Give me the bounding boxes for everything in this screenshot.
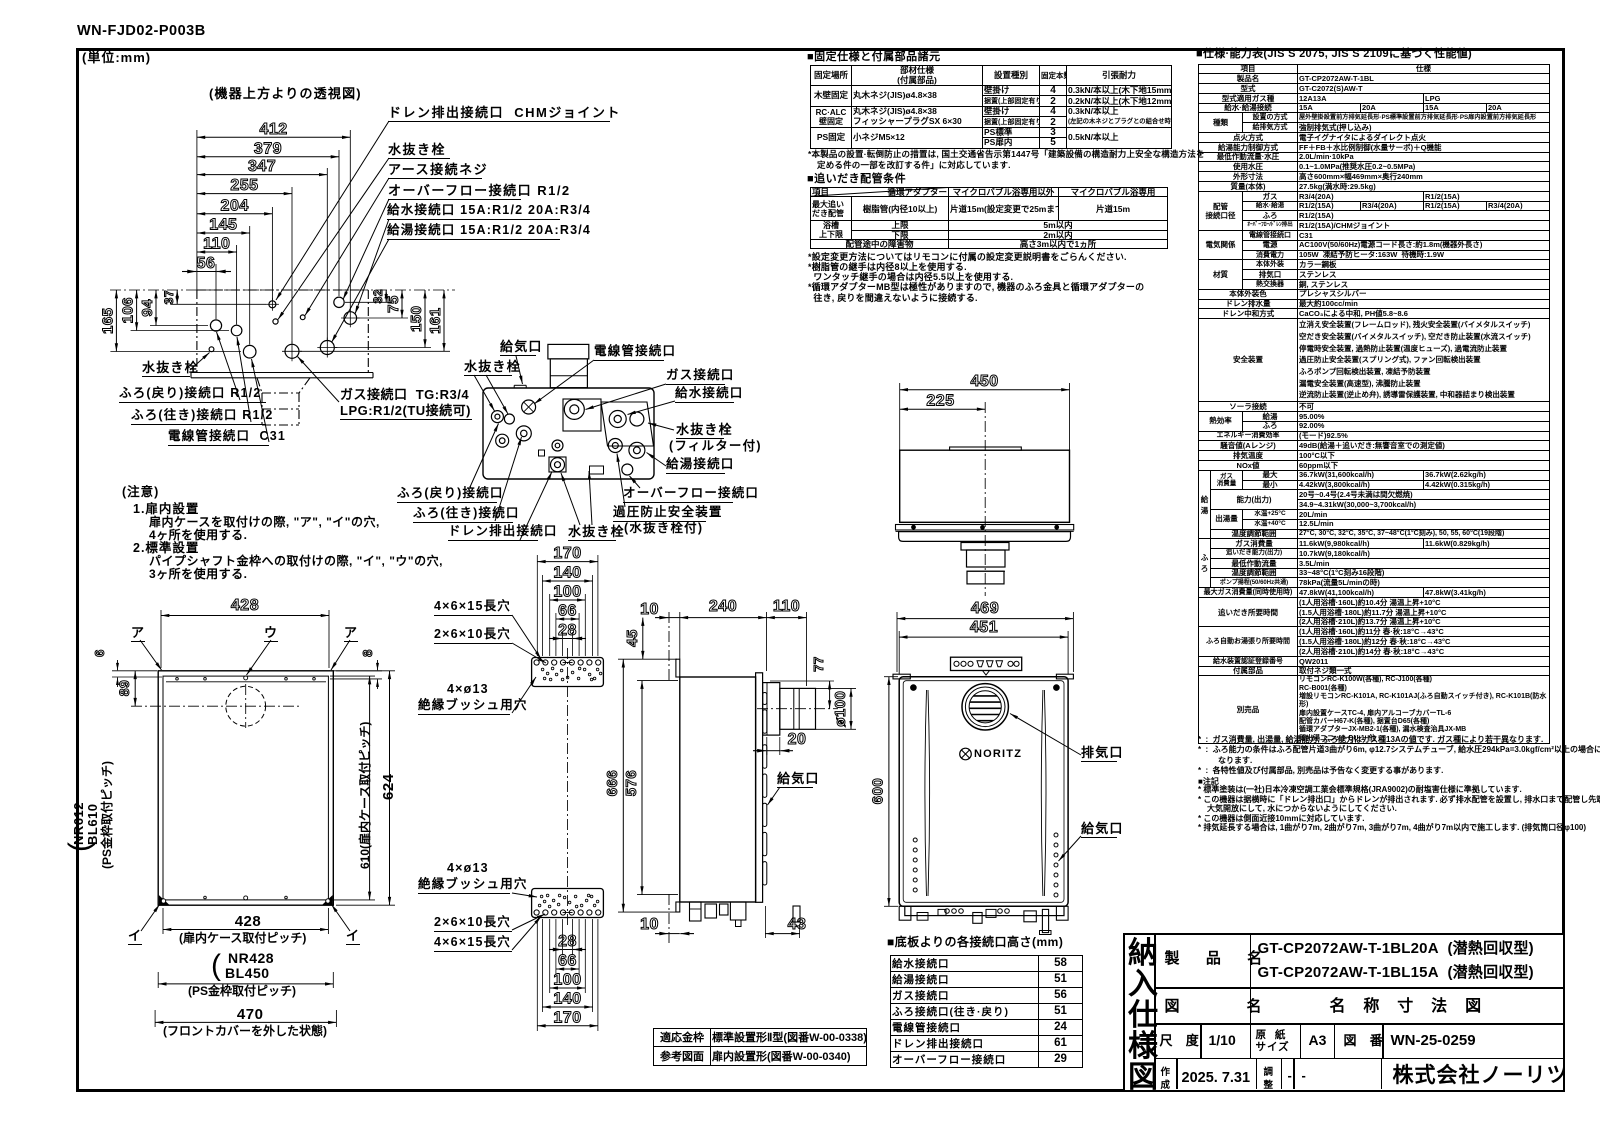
dimension 412 (top view) [197,121,350,138]
unit note [82,51,151,65]
label: NR428/BL450 [211,950,221,982]
svg-text:170: 170 [553,1009,581,1026]
svg-text:600: 600 [870,778,887,805]
front view: hanger plate with holes [951,657,1022,675]
panel view: dimension 428 bottom [163,908,328,934]
dimension 140 (lower plate) [542,991,592,1008]
leader: drain plug label to hole [278,158,389,320]
panel view: dimension 89 [116,671,135,706]
dimension 100 (lower plate) [550,972,586,989]
svg-text:110: 110 [773,598,800,615]
table: applicable frames [653,1028,867,1066]
dimension 150 (top view right) [408,290,425,348]
upper mounting hole plate [532,658,604,687]
svg-text:6: 6 [92,649,107,657]
top perspective view of unit (dash-dot body outline) [191,290,373,425]
table: specification and capability (JIS) [1196,49,1472,61]
svg-text:77: 77 [811,656,826,671]
label: hot water (bottom view) [666,458,725,474]
bottom view leaders [516,356,523,384]
side view: dimension 45 [624,618,643,660]
svg-text:37: 37 [162,290,176,304]
panel view: dimension 450 [158,972,333,988]
panel view: bottom edge small holes [204,896,288,900]
side view: dimension 576 [623,681,642,895]
bath return connection hole [210,320,221,331]
side view: dimension 666 [604,659,623,912]
leader: bath supply label [237,337,251,422]
notes under spec table [1198,735,1543,746]
notes block [122,486,159,499]
front view: air inlet holes left column [913,838,917,892]
panel view: extension lines top dim [161,610,329,668]
panel view: dimension 624 right [336,671,395,905]
dimension 32 (top view right) [371,289,386,303]
svg-text:469: 469 [971,600,999,617]
dimension 204 (top view) [197,197,273,214]
panel view: corner mounting feet [159,895,333,905]
dimension 379 (top view) [197,140,339,157]
svg-text:165: 165 [99,307,116,334]
drain outlet hole (CHM joint) [266,298,279,311]
label: overflow (bottom view) [623,487,733,503]
dimension 255 (top view) [197,177,292,194]
svg-text:140: 140 [553,565,581,582]
small drain plug hole [273,319,278,324]
label: drain outlet CHM joint [388,106,610,122]
earth screw hole [300,315,305,320]
sheet code top-left [77,24,206,39]
leader: lower 4x6x15 slots [512,917,541,951]
small top view: center line [984,402,986,596]
front view: NORITZ logo mark [960,748,972,760]
label: gas connection TG [340,388,469,402]
label: air inlet port [1081,822,1117,838]
svg-text:100: 100 [553,972,581,989]
front view: body panel [899,677,1068,907]
label: water inlet connection [387,204,560,220]
svg-text:140: 140 [553,991,581,1008]
label: upper 2x6x10 slots [434,628,512,644]
hole-row extension lines (right) [300,302,450,351]
leader: conduit C31 label [252,359,270,442]
label: 624 rotated [381,773,397,800]
svg-text:32: 32 [371,289,385,303]
front view: top ear tabs [893,674,1073,679]
label: hole mark i right [346,929,360,945]
bottom view: unit body outline [483,385,654,479]
svg-text:66: 66 [558,603,577,620]
label: bath return (bottom view) [397,487,497,503]
label: NR612/BL610 rotated [64,842,96,852]
svg-text:56: 56 [197,255,216,272]
svg-text:161: 161 [427,307,444,334]
svg-text:100: 100 [553,584,581,601]
extension lines for horizontal dimensions [197,130,350,345]
dimension 75 (top view right) [385,290,402,318]
small top view: body [900,447,1070,522]
bath supply connection hole [231,325,242,336]
dimension 145 (top view) [197,217,250,234]
front view: dim extension lines [897,612,1073,674]
dimension 100 (upper plate) [550,584,586,601]
label: upper 4x6x15 slots [434,600,512,616]
dimension 94 (top view left) [139,290,156,326]
dimension 37 (top view left) [162,290,177,304]
leader: upper 4xd13 bush holes [512,677,536,713]
side view: exhaust center line [757,708,838,710]
vertical center line between plates [567,648,569,928]
leader: bath return label [217,332,241,400]
front view: dimension 600 [870,677,899,907]
dimension 110 (top view) [197,236,237,253]
table: connection heights from base plate [887,936,1063,949]
label: hot water connection [387,224,560,240]
leader: lower 2x6x10 slots [512,914,545,930]
leader: left drain plug label [190,353,210,371]
svg-text:150: 150 [408,305,425,332]
leader: overflow label to hole [343,199,389,300]
front view: air inlet holes right column [1054,833,1058,897]
side view: bottom rear bracket [676,902,680,912]
side view: bottom dimension 43 [765,906,806,938]
panel view: iy corner leaders [141,905,350,932]
svg-text:28: 28 [558,933,577,950]
svg-text:450: 450 [970,373,998,390]
dimension 66 (lower plate) [556,953,579,970]
label: hole mark i left [128,929,142,945]
bottom view: exhaust duct stubs above body [548,344,589,387]
label: gas (bottom view) [666,369,725,385]
svg-text:576: 576 [623,770,640,797]
panel view: inner case [163,676,328,900]
label: 610 door case pitch rotated [359,722,372,869]
label: hole mark u center [264,626,278,642]
gas connection hole [282,341,302,361]
svg-text:43: 43 [788,916,807,933]
leader: earth screw label to hole [305,178,389,316]
svg-text:412: 412 [259,121,287,138]
label: exhaust port [1081,746,1117,762]
side view: wall line [668,612,670,943]
side view: bottom fittings [690,902,801,927]
caption: top perspective view [209,87,362,101]
side view: dimension 20 [753,731,806,755]
svg-text:20: 20 [788,731,807,748]
leader: water inlet label to hole [355,219,389,314]
label: drain plug (bottom view top) [464,360,512,376]
dimension 56 (top view) [182,255,231,272]
side view: dimension 77 [770,656,834,708]
front view: dimension 469 [897,600,1073,619]
side view: front panel plate [756,673,763,903]
svg-text:ø100: ø100 [832,691,849,727]
svg-text:347: 347 [248,158,276,175]
label: earth screw [388,163,482,179]
title block [1123,933,1566,1093]
side view: dimension dia 100 [816,688,856,729]
label: left drain plug [142,361,190,377]
small top view: dimension 225 [900,393,986,410]
label: bath supply [131,409,266,425]
small top view: mounting flange [896,525,1074,532]
side view: dim extension horizontals [618,659,678,912]
svg-text:45: 45 [624,629,641,647]
label: pressure relief device [613,506,706,522]
side view: top dimensions 10/240/110 [640,601,680,618]
label: upper bush holes [447,683,489,696]
overflow connection hole [334,297,344,307]
svg-text:170: 170 [553,545,581,562]
label: bath supply (bottom view) [413,507,513,523]
dimension 170 (lower plate) [537,1009,598,1026]
logo text NORITZ [974,749,1022,761]
dimension 28 (lower plate) [549,933,586,950]
svg-text:204: 204 [221,197,249,214]
leader: drain outlet label to hole [276,121,389,300]
label: drain plug [388,143,450,159]
label: lower bush holes [447,862,489,875]
dimension 28 (upper plate) [549,622,586,639]
left drain plug small hole [209,347,214,352]
panel view: dimension 8 (right) [330,649,382,689]
panel view: exhaust knockout dashed circle [131,684,300,728]
svg-text:379: 379 [254,140,282,157]
panel view: outer case [158,671,333,905]
dimension 161 (top view right) [427,290,444,351]
label: drain outlet (bottom view) [448,525,538,541]
panel view: top edge small holes [176,676,316,680]
side view: air inlet leader [768,787,781,805]
leader: upper 4x6x15 slots [512,615,541,659]
lower mounting hole plate [532,889,604,918]
small top view: bottom pan [899,532,1071,542]
water inlet connection hole [341,309,360,328]
label: lower 4x6x15 slots [434,936,512,952]
leader: hot water outlet label to hole [332,239,390,343]
dimension 347 (top view) [197,158,327,175]
dimension 66 (upper plate) [556,603,579,620]
front view: corner screws [911,685,1060,691]
leader: upper 2x6x10 slots [512,643,546,663]
panel view: dimension 470 [155,1010,336,1027]
front view: exhaust label leader [1010,714,1081,756]
label: water inlet (bottom view) [675,387,734,403]
front view: panel seam grooves [925,690,1046,896]
label: hole mark a left [131,626,145,642]
extension lines upper plate dims [537,555,598,656]
dimension 140 (upper plate) [542,565,592,582]
front view: bottom plate and fittings [899,906,1068,934]
table: fixing specs and accessory parts [807,52,941,64]
label: drain plug w/ filter [676,423,724,439]
conduit connection hole C31 [243,345,256,358]
side view: exhaust adapter and pipe [763,683,816,736]
svg-text:225: 225 [926,393,954,410]
svg-text:10: 10 [640,601,659,618]
table: reheating piping conditions [807,174,906,186]
label: lower 2x6x10 slots [434,916,512,932]
front view: dimension 451 [899,619,1068,637]
side view: air inlet louvre slots [763,693,767,886]
label: overflow connection [388,184,521,200]
svg-text:8: 8 [360,649,375,657]
svg-text:240: 240 [709,598,737,615]
hole-row extension lines (left) [110,304,266,351]
label: 428 door case pitch [235,914,262,930]
label: air inlet (side view) [777,772,813,788]
label: drain plug (bottom view bottom) [568,525,616,541]
dimension 165 (top view left) [99,290,116,352]
label: conduit C31 [168,430,269,446]
leader: gas connection label [298,357,340,403]
small top view: dimension 450 [900,373,1070,390]
leader: lower 4xd13 bush holes [512,893,537,897]
label: bath return [119,387,266,403]
svg-text:428: 428 [231,597,259,614]
svg-text:10: 10 [640,916,659,933]
side view: extension lines for top dims [680,612,807,686]
small top view: extension lines [900,383,1070,450]
svg-text:451: 451 [970,619,998,636]
panel view: dimension 428 top [161,597,329,616]
svg-text:75: 75 [385,295,402,313]
label: hole mark a right [344,626,358,642]
extension lines lower plate dims [537,919,598,1031]
front view: air inlet label leader [1059,836,1082,861]
top edge extension line (dash-dot) [110,289,455,291]
panel view: dimension 610 right [330,676,375,900]
label: 470 [237,1007,264,1023]
bottom view: internal valves and fittings [491,399,653,475]
svg-text:255: 255 [230,177,258,194]
svg-text:89: 89 [116,680,132,697]
dimension 106 (top view left) [120,290,137,331]
panel view: dimension 6 (left) [92,649,162,687]
svg-text:145: 145 [209,217,237,234]
svg-text:28: 28 [558,622,577,639]
side view: unit body [680,677,756,902]
svg-text:66: 66 [558,953,577,970]
svg-text:106: 106 [120,297,137,324]
label: air supply port (bottom view) [500,340,536,356]
hot water outlet connection hole [317,338,337,358]
svg-text:666: 666 [604,770,621,797]
side view: top rear bracket [676,659,680,677]
svg-text:110: 110 [203,236,230,253]
panel view: hole labels a/u/a leaders [140,640,350,675]
dimension 170 (upper plate) [537,545,598,562]
side view: bottom dimension 10 [640,916,694,934]
small top view: exhaust duct [961,543,1009,584]
svg-text:94: 94 [139,299,156,317]
label: conduit (bottom view) [594,345,664,361]
